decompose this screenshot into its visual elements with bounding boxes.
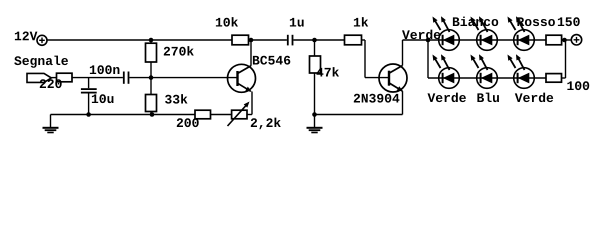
label 100n (90, 65, 120, 74)
LED D3 Rosso (508, 16, 535, 50)
wire 10k to 1u (249, 39, 287, 41)
label 220 (40, 79, 62, 88)
ground left (43, 115, 59, 133)
label 200 (177, 118, 199, 127)
label 12V (15, 32, 38, 41)
node 33k ground junction (150, 112, 155, 117)
label 2,2k (251, 118, 281, 130)
label 150 (558, 17, 580, 26)
node V+ junction (562, 38, 567, 43)
wire top LED row (428, 39, 546, 41)
trimmer 2,2k (228, 102, 250, 127)
node 47k ground junction (312, 112, 317, 117)
LED D6 Verde bottom-right (508, 54, 535, 88)
label 10k (216, 17, 238, 27)
label Segnale (14, 56, 68, 68)
resistor 10k (232, 35, 249, 45)
capacitor 100n (123, 72, 129, 84)
capacitor 1u (287, 35, 294, 46)
label 33k (165, 94, 187, 104)
power terminal 12V (37, 35, 47, 45)
transistor Q2 2N3904 (379, 40, 407, 115)
label BC546 (253, 56, 290, 65)
resistor 270k (146, 40, 157, 78)
label Rosso (517, 17, 555, 26)
label 1u (290, 18, 304, 27)
capacitor 10u (81, 78, 97, 115)
resistor 200 (195, 110, 211, 119)
label Verde top (402, 30, 440, 39)
label 47k (317, 67, 340, 76)
label 10u (92, 94, 114, 103)
wire 150 to terminal (562, 39, 572, 41)
label 270k (164, 46, 194, 56)
label 100 (567, 81, 589, 90)
node base junction (149, 75, 154, 80)
label 1k (354, 17, 368, 26)
label Verde bottom-left (428, 93, 466, 103)
wire bottom LED branch (428, 40, 546, 78)
LED D2 Bianco (471, 16, 498, 50)
wire 1u to 1k (293, 39, 344, 41)
label Bianco (453, 17, 498, 27)
wire 1k to base Q2 (362, 40, 390, 78)
node divider top junction (149, 38, 154, 43)
node collector Q1 junction (249, 38, 254, 43)
resistor 33k (146, 78, 157, 115)
resistor 1k (345, 35, 362, 45)
wire bottom rail right (315, 114, 403, 116)
LED D4 Verde bottom-left (433, 54, 460, 88)
resistor 47k (310, 40, 321, 115)
wire base BC546 (129, 77, 237, 79)
wire bottom rail left (51, 114, 196, 116)
LED D1 Verde top (433, 16, 460, 50)
label 2N3904 (354, 94, 400, 103)
node 47k top junction (312, 38, 317, 43)
transistor Q1 BC546 (228, 40, 256, 115)
label Blu (477, 93, 499, 103)
resistor 220 (57, 73, 73, 82)
power terminal V+ (571, 35, 581, 45)
node LED branch junction (426, 38, 431, 43)
resistor 150 (546, 35, 562, 45)
wire 200 to trimmer (211, 114, 232, 116)
wire input to 100n (72, 77, 123, 79)
wire top rail 12V to 10k (47, 39, 232, 41)
wire collector Q2 to branch (403, 39, 429, 41)
LED D5 Blu (471, 54, 498, 88)
node 10u ground junction (86, 112, 91, 117)
input connector Segnale (27, 73, 57, 82)
ground right (307, 115, 323, 133)
resistor 100 (546, 40, 566, 82)
wire trimmer to emitter Q1 (247, 114, 252, 116)
label Verde bottom-right (515, 93, 553, 103)
